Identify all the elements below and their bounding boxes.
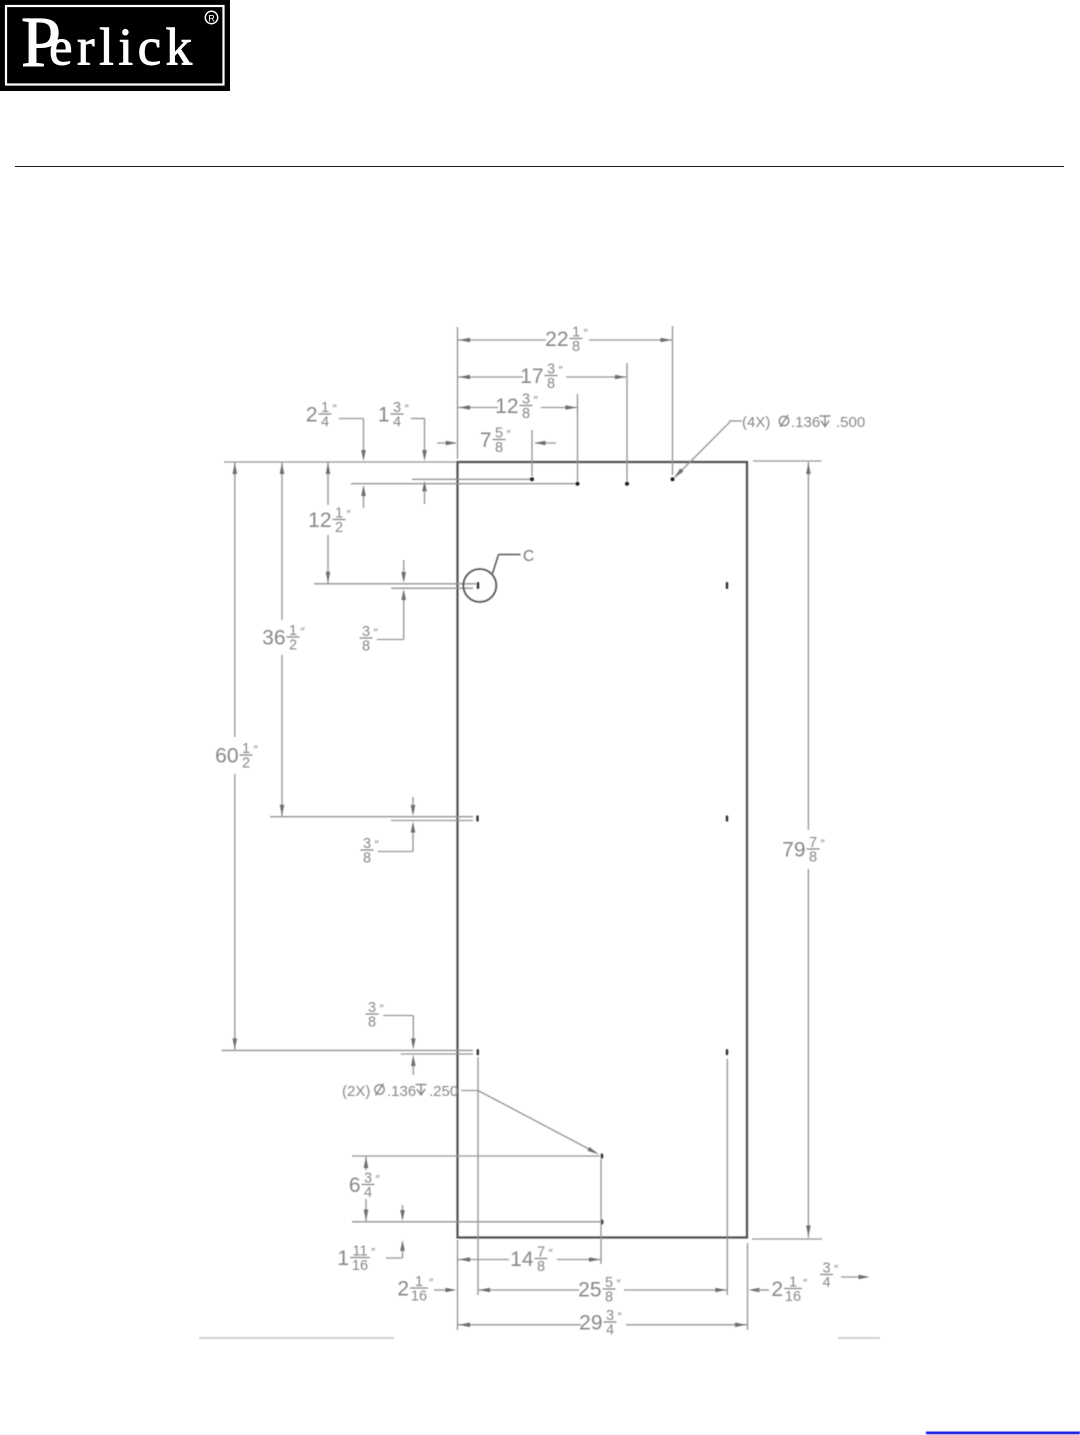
svg-text:″: ″ xyxy=(380,1002,385,1016)
row5 extension line xyxy=(352,1155,600,1157)
faint table edge left xyxy=(199,1337,394,1339)
faint table edge right xyxy=(838,1337,880,1339)
svg-text:1: 1 xyxy=(789,1274,797,1290)
extension line x627 top xyxy=(626,363,628,481)
dim 29 3/4 line xyxy=(458,1323,747,1328)
hole row4 left xyxy=(477,1049,479,1055)
dim 1 11/16 arrows xyxy=(386,1205,405,1258)
row C extension line xyxy=(314,583,476,585)
ext bottom right xyxy=(752,1238,822,1240)
header rule xyxy=(15,166,1064,168)
dim 2 1/16 left label xyxy=(397,1274,434,1305)
dim 2 1/16 right arrow xyxy=(749,1288,770,1293)
ext x727 bottom xyxy=(726,1059,728,1295)
note (2X) .136 depth .250 xyxy=(342,1083,458,1100)
dim 3/8 row4 arrows xyxy=(383,1016,416,1076)
svg-text:1: 1 xyxy=(378,404,390,427)
dim 12 1/2 line xyxy=(326,462,331,584)
dim 1 3/4 label xyxy=(378,400,410,431)
row1 extension line xyxy=(412,478,530,480)
svg-text:″: ″ xyxy=(549,1247,554,1261)
dim 3/8 C label xyxy=(360,624,379,655)
blue footer line xyxy=(926,1432,1080,1435)
hole A2 xyxy=(576,482,580,486)
ext x478 bottom xyxy=(477,1057,479,1295)
svg-text:″: ″ xyxy=(803,1277,808,1291)
svg-text:2: 2 xyxy=(306,404,318,427)
dim 6 3/4 label xyxy=(349,1170,381,1201)
dim 3/4 label xyxy=(820,1260,839,1291)
svg-text:2: 2 xyxy=(771,1278,783,1301)
svg-text:″: ″ xyxy=(559,364,564,378)
svg-text:29: 29 xyxy=(579,1312,602,1335)
Perlick logo xyxy=(0,0,230,91)
dim 17 3/8 label xyxy=(520,361,563,392)
svg-text:2: 2 xyxy=(397,1278,409,1301)
svg-text:17: 17 xyxy=(520,365,543,388)
svg-text:4: 4 xyxy=(364,1185,372,1201)
svg-text:1: 1 xyxy=(337,1247,349,1270)
svg-text:3: 3 xyxy=(362,624,370,640)
dim 3/8 row3 arrows xyxy=(378,797,415,852)
svg-text:2: 2 xyxy=(242,756,250,772)
dim 25 5/8 label xyxy=(578,1275,621,1306)
dim 6 3/4 line xyxy=(364,1156,369,1222)
row3 lower extension line xyxy=(391,820,473,822)
panel outline xyxy=(458,462,748,1238)
top edge extension left xyxy=(224,461,456,463)
svg-text:(4X): (4X) xyxy=(742,414,770,431)
svg-text:1: 1 xyxy=(335,505,343,521)
svg-text:60: 60 xyxy=(215,745,238,768)
svg-text:25: 25 xyxy=(578,1279,601,1302)
svg-text:11: 11 xyxy=(352,1243,367,1259)
svg-text:1: 1 xyxy=(242,741,250,757)
note (4X) .136 depth .500 xyxy=(742,414,865,431)
leader (4X) to hole xyxy=(674,421,743,479)
svg-text:8: 8 xyxy=(547,376,555,392)
svg-text:(2X): (2X) xyxy=(342,1083,370,1100)
svg-text:5: 5 xyxy=(605,1275,613,1291)
ext x458 bottom xyxy=(457,1240,459,1330)
dim 2 1/16 right label xyxy=(771,1274,808,1305)
svg-text:8: 8 xyxy=(495,440,503,456)
dim 79 7/8 label xyxy=(782,835,825,866)
svg-text:″: ″ xyxy=(534,394,539,408)
leader C xyxy=(493,555,521,574)
svg-text:3: 3 xyxy=(522,391,530,407)
row6 extension line xyxy=(352,1221,604,1223)
dim 3/8 C arrows xyxy=(377,560,406,640)
svg-text:″: ″ xyxy=(301,625,306,639)
row4 lower extension line xyxy=(401,1053,473,1055)
svg-text:12: 12 xyxy=(495,395,518,418)
svg-text:8: 8 xyxy=(572,339,580,355)
svg-text:22: 22 xyxy=(545,328,568,351)
svg-text:2: 2 xyxy=(289,638,297,654)
svg-text:″: ″ xyxy=(374,626,379,640)
dim 60 1/2 line xyxy=(233,462,238,1050)
svg-text:8: 8 xyxy=(522,406,530,422)
svg-text:.136: .136 xyxy=(791,414,820,431)
svg-text:1: 1 xyxy=(415,1274,423,1290)
svg-text:16: 16 xyxy=(785,1289,801,1305)
extension line x532 top xyxy=(531,430,533,476)
detail circle C xyxy=(463,569,496,602)
svg-text:1: 1 xyxy=(572,324,580,340)
ext x601 bottom xyxy=(600,1159,602,1264)
svg-text:5: 5 xyxy=(495,425,503,441)
svg-text:16: 16 xyxy=(352,1258,368,1274)
svg-text:3: 3 xyxy=(363,836,371,852)
svg-text:C: C xyxy=(523,548,534,565)
svg-text:7: 7 xyxy=(537,1244,545,1260)
hole row5 xyxy=(601,1154,603,1159)
svg-text:4: 4 xyxy=(393,415,401,431)
dim 36 1/2 line xyxy=(280,462,285,817)
svg-text:4: 4 xyxy=(321,415,329,431)
svg-text:8: 8 xyxy=(368,1015,376,1031)
ext top right xyxy=(753,460,822,462)
hole row6 xyxy=(601,1220,603,1225)
svg-text:4: 4 xyxy=(606,1323,614,1339)
svg-text:6: 6 xyxy=(349,1174,361,1197)
dim 36 1/2 label xyxy=(262,623,305,654)
dim 22 1/8 line xyxy=(458,338,673,343)
hole A3 xyxy=(625,482,629,486)
svg-text:8: 8 xyxy=(537,1259,545,1275)
svg-text:″: ″ xyxy=(347,508,352,522)
svg-text:2: 2 xyxy=(335,520,343,536)
dim 14 7/8 line xyxy=(458,1257,601,1262)
extension line x458 top xyxy=(457,327,459,459)
dim 12 3/8 line xyxy=(458,405,578,410)
dim 2 1/4 leader xyxy=(339,419,366,509)
svg-text:7: 7 xyxy=(809,835,817,851)
dim 2 1/4 label xyxy=(306,400,338,431)
svg-text:″: ″ xyxy=(618,1310,623,1324)
svg-text:8: 8 xyxy=(809,850,817,866)
svg-text:8: 8 xyxy=(363,851,371,867)
svg-text:″: ″ xyxy=(617,1277,622,1291)
dim 25 5/8 line xyxy=(478,1288,727,1293)
svg-text:3: 3 xyxy=(364,1170,372,1186)
dim 14 7/8 label xyxy=(510,1244,553,1275)
ext x747 bottom xyxy=(747,1243,749,1330)
svg-text:″: ″ xyxy=(507,428,512,442)
svg-text:3: 3 xyxy=(547,361,555,377)
hole C left xyxy=(477,582,479,589)
svg-text:″: ″ xyxy=(405,402,410,416)
svg-text:″: ″ xyxy=(254,743,259,757)
row2 extension line xyxy=(351,483,575,485)
dim 3/8 row3 label xyxy=(361,836,380,867)
svg-text:36: 36 xyxy=(262,627,285,650)
hole row3 right xyxy=(726,815,728,821)
svg-text:8: 8 xyxy=(362,639,370,655)
svg-text:3: 3 xyxy=(393,400,401,416)
svg-text:″: ″ xyxy=(375,838,380,852)
dim 1 11/16 label xyxy=(337,1243,376,1274)
svg-text:7: 7 xyxy=(480,429,492,452)
svg-text:″: ″ xyxy=(333,402,338,416)
dim 7 5/8 label xyxy=(480,425,512,456)
svg-text:3: 3 xyxy=(822,1260,830,1276)
extension line x672 top xyxy=(672,326,674,475)
dim 17 3/8 line xyxy=(458,375,627,380)
hole row4 right xyxy=(726,1049,728,1055)
svg-text:.250: .250 xyxy=(429,1083,458,1100)
svg-text:14: 14 xyxy=(510,1248,534,1271)
svg-text:.500: .500 xyxy=(836,414,865,431)
svg-text:79: 79 xyxy=(782,839,805,862)
svg-text:″: ″ xyxy=(584,327,589,341)
svg-text:3: 3 xyxy=(368,1000,376,1016)
hole row3 left xyxy=(476,815,478,821)
dim 3/4 arrow xyxy=(841,1275,870,1280)
svg-text:12: 12 xyxy=(308,509,331,532)
hole C right xyxy=(726,582,728,589)
svg-text:″: ″ xyxy=(429,1276,434,1290)
label C xyxy=(523,548,534,565)
svg-text:4: 4 xyxy=(822,1275,830,1291)
svg-text:3: 3 xyxy=(606,1308,614,1324)
dim 1 3/4 leader xyxy=(411,419,427,505)
dim 22 1/8 label xyxy=(545,324,588,355)
row3 extension line xyxy=(270,816,473,818)
dim 2 1/16 left arrow xyxy=(434,1288,457,1293)
row C lower extension line xyxy=(391,587,473,589)
leader (2X) to hole xyxy=(461,1091,599,1155)
dim 7 5/8 arrows xyxy=(437,441,556,446)
dim 12 3/8 label xyxy=(495,391,538,422)
svg-text:″: ″ xyxy=(834,1263,839,1277)
hole A4 xyxy=(671,477,675,481)
dim 60 1/2 label xyxy=(215,741,258,772)
svg-text:1: 1 xyxy=(321,400,329,416)
extension line x577 top xyxy=(577,394,579,481)
svg-text:″: ″ xyxy=(376,1173,381,1187)
dim 79 7/8 line xyxy=(806,462,811,1238)
dim 3/8 row4 label xyxy=(366,1000,385,1031)
svg-text:8: 8 xyxy=(605,1290,613,1306)
dim 12 1/2 label xyxy=(308,505,351,536)
svg-text:16: 16 xyxy=(411,1289,427,1305)
svg-text:″: ″ xyxy=(821,837,826,851)
svg-text:1: 1 xyxy=(289,623,297,639)
svg-text:.136: .136 xyxy=(387,1083,416,1100)
row4 extension line xyxy=(222,1049,474,1051)
svg-text:″: ″ xyxy=(371,1246,376,1260)
dim 29 3/4 label xyxy=(579,1308,622,1339)
hole A1 xyxy=(530,477,534,481)
